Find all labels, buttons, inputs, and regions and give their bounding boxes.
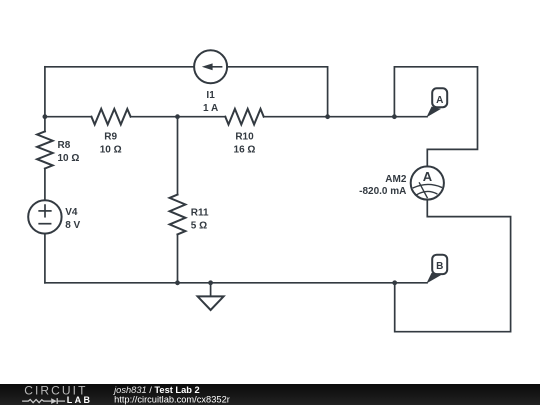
wire top rail right of I1: [227, 67, 328, 117]
wire R11 top lead: [177, 117, 179, 195]
wire mid rail segment 2: [131, 116, 226, 118]
svg-text:josh831 / Test Lab 2: josh831 / Test Lab 2: [112, 385, 200, 395]
svg-text:A: A: [423, 169, 433, 184]
wire V4 to bottom rail: [44, 234, 46, 283]
ammeter scale arc outer: [413, 184, 441, 187]
ammeter needle: [419, 183, 427, 198]
voltage source V4 circle: [28, 200, 61, 233]
svg-text:-820.0 mA: -820.0 mA: [359, 186, 406, 197]
svg-text:16 Ω: 16 Ω: [234, 145, 256, 156]
svg-text:V4: V4: [65, 207, 78, 218]
svg-text:AM2: AM2: [385, 174, 407, 185]
node dot mid-left: [43, 114, 48, 119]
V4 minus sign: [39, 223, 50, 225]
resistor R9: [91, 109, 130, 125]
svg-text:R8: R8: [58, 140, 71, 151]
ammeter scale arc inner: [417, 191, 437, 194]
node dot bottom R11: [175, 280, 180, 285]
svg-text:R11: R11: [191, 207, 209, 218]
svg-text:R10: R10: [235, 132, 254, 143]
svg-text:B: B: [436, 261, 443, 272]
svg-text:1 A: 1 A: [203, 103, 218, 114]
wire R8 to V4: [44, 169, 46, 201]
svg-text:8 V: 8 V: [65, 220, 80, 231]
current source I1 circle: [194, 50, 227, 83]
terminal A box: [432, 88, 447, 107]
svg-text:A: A: [436, 95, 443, 106]
wire left: node to R8: [44, 117, 46, 132]
resistor R8: [37, 131, 53, 168]
I1 arrow head: [202, 63, 213, 70]
svg-text:10 Ω: 10 Ω: [100, 145, 122, 156]
node dot mid R11: [175, 114, 180, 119]
ground stub: [210, 283, 212, 296]
V4 plus sign: [39, 210, 51, 212]
resistor R11: [170, 195, 186, 235]
I1 arrow shaft: [209, 66, 222, 68]
logo diode: [51, 398, 57, 404]
node dot bottom ground: [208, 280, 213, 285]
terminal B box: [432, 255, 447, 274]
wire A-loop: node up, across, down to ammeter: [394, 67, 477, 167]
logo resistor zigzag: [22, 400, 51, 403]
terminal A pointer: [426, 107, 441, 118]
svg-text:I1: I1: [206, 90, 215, 101]
ammeter AM2 circle: [411, 166, 444, 199]
node dot mid I1 return: [325, 114, 330, 119]
terminal B pointer: [426, 273, 441, 284]
wire bottom rail: [45, 282, 427, 284]
wire R11 bottom lead: [177, 234, 179, 282]
wire mid rail segment 3: [264, 116, 427, 118]
svg-text:10 Ω: 10 Ω: [58, 153, 80, 164]
wire top rail left of I1: [45, 66, 194, 68]
svg-text:http://circuitlab.com/cx8352r: http://circuitlab.com/cx8352r: [114, 394, 230, 404]
resistor R10: [225, 109, 263, 125]
wire top-left vertical: [44, 67, 46, 117]
node dot bottom B-loop: [392, 280, 397, 285]
svg-text:5 Ω: 5 Ω: [191, 220, 207, 231]
wire mid rail segment 1: [45, 116, 92, 118]
ground triangle: [198, 296, 224, 310]
wire ammeter bottom loop to node B: [395, 200, 511, 332]
node dot mid A-loop: [392, 114, 397, 119]
svg-text:R9: R9: [104, 132, 117, 143]
svg-text:LAB: LAB: [67, 395, 93, 405]
